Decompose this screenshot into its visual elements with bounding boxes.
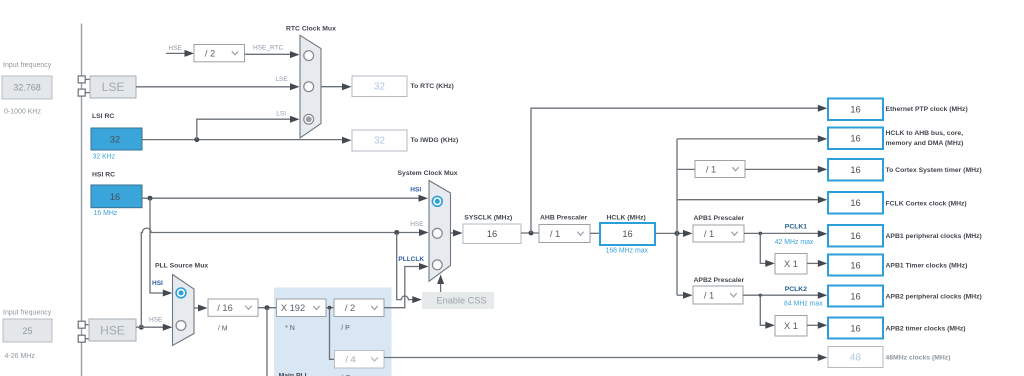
svg-text:16: 16 [110, 192, 120, 202]
svg-text:HSE_RTC: HSE_RTC [253, 45, 284, 52]
output box APB2 timer [828, 318, 883, 339]
LSE pin squares [78, 76, 85, 83]
HSE stub wire [166, 52, 186, 54]
junction SYSCLK [529, 231, 534, 236]
X1 out [807, 262, 818, 264]
svg-text:HSI RC: HSI RC [92, 172, 115, 179]
wire HCLK to junction [655, 232, 684, 234]
svg-text:RTC Clock Mux: RTC Clock Mux [286, 26, 336, 33]
svg-text:16: 16 [622, 229, 632, 239]
LSE wire [136, 86, 291, 88]
vertical to bottom (PLLSAI) [266, 308, 268, 376]
output box APB2 peripheral [828, 286, 883, 307]
svg-text:System Clock Mux: System Clock Mux [398, 170, 458, 177]
svg-text:4-26 MHz: 4-26 MHz [5, 353, 36, 360]
svg-text:48MHz clocks (MHz): 48MHz clocks (MHz) [886, 355, 951, 362]
svg-text:16: 16 [850, 198, 860, 208]
svg-text:32: 32 [374, 136, 385, 147]
LSI RC box [91, 128, 142, 150]
wire AHB to HCLK [590, 232, 600, 234]
svg-text:48: 48 [850, 353, 861, 364]
svg-text:16: 16 [850, 134, 860, 144]
svg-text:X 1: X 1 [784, 321, 798, 331]
junction PLL in [265, 305, 270, 310]
svg-text:HCLK (MHz): HCLK (MHz) [607, 215, 646, 222]
PLL source mux [173, 275, 195, 346]
output box APB1 timer [828, 255, 883, 276]
output box 48MHz [828, 347, 883, 368]
junction CSS [394, 230, 399, 235]
junction HSE [139, 325, 144, 330]
X1 multiplier APB1 [775, 254, 807, 275]
HCLK box [600, 223, 655, 245]
PLL mux output [194, 307, 200, 309]
HSE wire to PLL mux [136, 326, 164, 328]
svg-text:HSE: HSE [149, 317, 163, 324]
svg-text:AHB Prescaler: AHB Prescaler [540, 215, 588, 222]
Enable CSS arrow up [440, 283, 442, 292]
output box Cortex timer [828, 159, 883, 181]
/2 combo [194, 45, 245, 62]
svg-text:HSI: HSI [152, 280, 163, 287]
input frequency box 32.768 [2, 76, 52, 99]
svg-text:/ 1: / 1 [704, 290, 714, 300]
svg-text:HSE: HSE [169, 45, 183, 52]
svg-text:To RTC (KHz): To RTC (KHz) [411, 83, 454, 90]
APB2 row corner [677, 294, 684, 296]
oscillator HSE [89, 319, 136, 341]
svg-text:/ 1: / 1 [550, 229, 560, 239]
svg-text:16: 16 [850, 231, 860, 241]
SYSCLK wire [451, 232, 456, 234]
Main PLL panel [274, 288, 392, 376]
/Q combo (disabled) [335, 351, 385, 369]
svg-text:LSE: LSE [102, 80, 125, 94]
svg-text:SYSCLK (MHz): SYSCLK (MHz) [464, 215, 512, 222]
FCLK row wire [677, 199, 818, 201]
HSE pin squares [78, 321, 85, 328]
APB2 out wire [743, 294, 818, 296]
48MHz wire [384, 357, 818, 359]
HSI wire to system mux [142, 197, 420, 199]
svg-text:PLLCLK: PLLCLK [398, 256, 424, 263]
oscillator LSE [90, 76, 136, 98]
Cortex prescaler combo [695, 161, 745, 178]
HCLK AHB row wire [677, 138, 818, 140]
svg-text:PLL Source Mux: PLL Source Mux [155, 263, 208, 270]
junction APB2 branch [759, 294, 762, 297]
junction HCLK [675, 231, 680, 236]
Cortex out wire [745, 168, 818, 170]
svg-text:84 MHz max: 84 MHz max [784, 300, 823, 307]
svg-text:X 192: X 192 [281, 303, 305, 313]
input frequency box 25 [3, 319, 52, 342]
svg-text:/ M: / M [218, 326, 228, 333]
svg-text:LSI RC: LSI RC [92, 113, 114, 120]
svg-text:Enable CSS: Enable CSS [437, 296, 487, 306]
svg-text:To Cortex System timer (MHz): To Cortex System timer (MHz) [886, 167, 982, 174]
svg-text:16: 16 [487, 229, 497, 239]
svg-text:APB1 Timer clocks (MHz): APB1 Timer clocks (MHz) [886, 263, 968, 270]
output box FCLK [828, 192, 883, 214]
To IWDG box [352, 130, 407, 151]
svg-text:/ 2: / 2 [345, 303, 355, 313]
svg-text:/ 1: / 1 [706, 164, 716, 174]
svg-text:32: 32 [374, 82, 385, 93]
svg-text:APB2 Prescaler: APB2 Prescaler [694, 277, 745, 284]
HSE wire up to system mux with hop [141, 228, 420, 327]
svg-text:16: 16 [850, 324, 860, 334]
Enable CSS box [422, 292, 494, 309]
PLLCLK wire [384, 267, 419, 308]
junction APB1 branch [759, 232, 763, 236]
svg-text:FCLK Cortex clock (MHz): FCLK Cortex clock (MHz) [886, 200, 967, 207]
LSI branch to RTC mux [197, 119, 291, 139]
svg-text:Input frequency: Input frequency [3, 62, 52, 69]
RTC mux output wire [321, 86, 343, 88]
svg-text:* N: * N [285, 325, 295, 332]
svg-text:16 MHz: 16 MHz [94, 210, 118, 217]
APB2 timer branch [760, 295, 767, 325]
X1 APB2 out [807, 324, 818, 326]
/P combo [334, 299, 384, 317]
HSI branch to PLL mux [150, 198, 164, 293]
Cortex row wire [677, 168, 695, 170]
svg-text:16: 16 [850, 292, 860, 302]
wire SYSCLK to AHB [521, 232, 539, 234]
vertical fanout [676, 139, 678, 295]
svg-text:Main PLL: Main PLL [279, 373, 309, 376]
output box Ethernet PTP [828, 99, 883, 121]
svg-text:APB1 peripheral clocks (MHz): APB1 peripheral clocks (MHz) [886, 233, 982, 240]
svg-text:42 MHz max: 42 MHz max [775, 239, 814, 246]
branch to /Q [330, 308, 335, 360]
svg-text:LSE: LSE [275, 76, 288, 83]
svg-text:APB2 peripheral clocks (MHz): APB2 peripheral clocks (MHz) [886, 294, 982, 301]
AHB prescaler combo [539, 225, 590, 243]
APB1 prescaler combo [693, 225, 744, 242]
output box APB1 peripheral [828, 225, 883, 247]
svg-text:LSI: LSI [276, 111, 286, 118]
wire /16 to X192 [258, 307, 277, 309]
APB2 prescaler combo [693, 286, 743, 304]
junction PLL N branch [328, 306, 332, 310]
HSI RC box [91, 185, 142, 208]
svg-text:16: 16 [850, 165, 860, 175]
svg-text:16: 16 [850, 105, 860, 115]
svg-text:/ 1: / 1 [704, 229, 714, 239]
svg-text:168 MHz max: 168 MHz max [606, 248, 649, 255]
svg-text:Ethernet PTP clock (MHz): Ethernet PTP clock (MHz) [886, 106, 968, 113]
svg-text:/ P: / P [341, 325, 350, 332]
svg-text:16: 16 [850, 261, 860, 271]
CSS wire down to Enable CSS with hop [397, 233, 413, 300]
svg-text:APB1 Prescaler: APB1 Prescaler [694, 215, 745, 222]
svg-text:0-1000 KHz: 0-1000 KHz [4, 109, 41, 116]
junction LSI [194, 137, 199, 142]
svg-text:memory and DMA (MHz): memory and DMA (MHz) [886, 140, 964, 147]
junction HSI [148, 196, 153, 201]
svg-text:To IWDG (KHz): To IWDG (KHz) [411, 137, 459, 144]
svg-text:HSE: HSE [410, 221, 424, 228]
X1 multiplier APB2 [775, 316, 807, 337]
svg-text:HCLK to AHB bus, core,: HCLK to AHB bus, core, [886, 130, 964, 137]
Ethernet PTP wire [531, 108, 818, 233]
*N combo [277, 299, 327, 317]
SYSCLK box [463, 224, 521, 244]
system clock mux [429, 181, 451, 282]
svg-text:HSE: HSE [100, 324, 125, 338]
LSI wire to IWDG [142, 139, 343, 141]
svg-text:32 KHz: 32 KHz [93, 154, 116, 161]
svg-text:25: 25 [22, 326, 32, 336]
svg-text:APB2 timer clocks (MHz): APB2 timer clocks (MHz) [886, 325, 966, 332]
svg-text:X 1: X 1 [784, 259, 798, 269]
left rail [81, 24, 83, 376]
APB1 timer branch [760, 233, 767, 263]
To RTC box [352, 76, 407, 97]
APB1 out wire [744, 232, 818, 234]
svg-text:/ 16: / 16 [217, 303, 233, 313]
RTC clock mux [300, 35, 321, 138]
svg-text:PCLK1: PCLK1 [785, 224, 808, 231]
/M combo [208, 299, 258, 316]
wire X192 to /P [326, 307, 334, 309]
svg-text:/ 2: / 2 [205, 48, 215, 58]
svg-text:PCLK2: PCLK2 [785, 286, 808, 293]
output box HCLK AHB [828, 128, 883, 150]
HSE_RTC wire [245, 53, 292, 55]
svg-text:/ 4: / 4 [345, 355, 355, 365]
svg-text:HSI: HSI [410, 187, 421, 194]
svg-text:32: 32 [110, 135, 120, 145]
svg-text:32.768: 32.768 [13, 82, 41, 92]
svg-text:Input frequency: Input frequency [3, 310, 52, 317]
